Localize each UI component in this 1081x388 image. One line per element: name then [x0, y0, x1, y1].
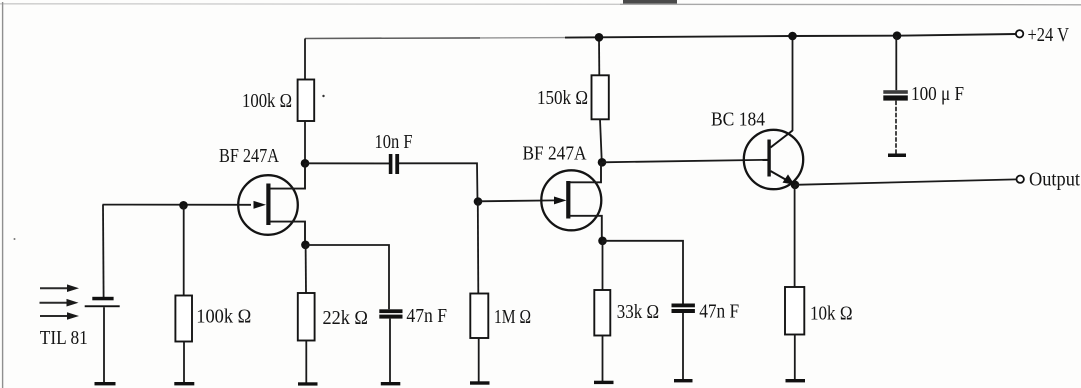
wire gate node down to R2: [183, 205, 185, 295]
svg-text:33k Ω: 33k Ω: [617, 301, 659, 323]
node rail/100uF junction dot: [893, 31, 902, 40]
border frame left line: [2, 2, 4, 388]
speck mark: [322, 95, 324, 97]
wire gate1 from photodiode to gate: [103, 204, 252, 206]
capacitor 47n F (stage 1 bypass): [379, 309, 402, 318]
node emitter junction dot: [791, 181, 800, 190]
node rail/collector junction dot: [788, 32, 797, 41]
label 10n F: [375, 131, 413, 153]
wire 150k bottom to drain2 node: [600, 119, 602, 162]
wire emitter down to 10k: [794, 185, 796, 287]
node drain2 junction dot: [598, 158, 607, 167]
svg-text:1M Ω: 1M Ω: [494, 306, 531, 328]
wire 33k bottom to bar: [602, 336, 604, 382]
svg-text:100k Ω: 100k Ω: [242, 90, 292, 112]
light arrow 3: [40, 312, 79, 320]
svg-text:TIL 81: TIL 81: [40, 327, 88, 349]
wire emitter to output terminal: [795, 179, 1016, 184]
resistor R1 100k (drain load, stage 1): [298, 80, 315, 122]
terminal bar below R2: [174, 382, 194, 385]
speck mark left: [14, 238, 16, 240]
label 150k Ω: [537, 87, 588, 109]
svg-text:47n F: 47n F: [406, 305, 447, 327]
label 100k Ω (R1): [242, 90, 292, 112]
terminal bar below TIL 81: [95, 382, 116, 385]
wire rail to R1 top: [304, 39, 306, 80]
resistor 1M (gate 2 bias): [470, 294, 488, 339]
wire rail to 150k top: [598, 37, 600, 75]
wire 10k bottom to bar: [794, 335, 796, 380]
wire rail to 100uF: [895, 36, 897, 90]
label 47n F (stage 1): [406, 305, 447, 327]
capacitor 10n F coupling: [389, 154, 399, 174]
wire source node to 47n cap: [305, 245, 389, 309]
resistor R2 100k (gate 1 bias): [175, 296, 192, 342]
svg-text:BF 247A: BF 247A: [523, 143, 587, 165]
wire cap to gate2 column: [399, 163, 478, 201]
node rail/150k junction dot: [595, 33, 604, 42]
node drain1 junction dot: [301, 159, 310, 168]
svg-text:10n F: 10n F: [375, 131, 413, 153]
wire 1M bottom to bar: [478, 338, 480, 382]
resistor 150k (drain load, stage 2): [592, 75, 609, 119]
label 47n F (stage 2): [699, 301, 739, 323]
wire 47n#2 bottom to bar: [682, 313, 684, 380]
resistor 10k (emitter load): [785, 287, 804, 335]
label 33k Ω: [617, 301, 659, 323]
resistor 33k (source 2): [594, 290, 610, 336]
label TIL 81: [40, 327, 88, 349]
label BC 184: [711, 109, 765, 131]
svg-text:Output: Output: [1029, 169, 1080, 191]
svg-text:47n F: 47n F: [699, 301, 739, 323]
label +24 V: [1028, 24, 1070, 46]
wire source2 node to 47n #2: [603, 241, 684, 304]
JFET Q1 BF 247A stage 1: [238, 163, 305, 244]
node gate1 bias junction dot: [179, 201, 188, 210]
terminal bar below 1M: [470, 381, 490, 384]
light arrow 2: [40, 299, 79, 307]
label 10k Ω: [810, 303, 853, 325]
JFET Q2 BF 247A stage 2: [541, 162, 602, 241]
wire +24V supply rail: [305, 34, 1016, 39]
svg-text:BC 184: BC 184: [711, 109, 765, 131]
label BF 247A (Q1): [219, 145, 279, 167]
wire collector to rail: [792, 36, 794, 131]
capacitor 100 uF electrolytic: [883, 90, 908, 100]
photodiode TIL 81: [85, 297, 120, 307]
wire 100uF bottom lead: [895, 101, 897, 154]
capacitor 47n F (stage 2 bypass): [672, 304, 695, 314]
svg-text:100 μ F: 100 μ F: [911, 83, 964, 105]
label 1M Ω: [494, 306, 531, 328]
svg-text:100k Ω: 100k Ω: [196, 306, 251, 328]
terminal bar below 100uF: [888, 154, 906, 158]
label Output: [1029, 169, 1080, 191]
transistor Q3 BC 184: [744, 130, 803, 189]
wire photodiode bottom lead: [103, 307, 105, 382]
svg-text:BF 247A: BF 247A: [219, 145, 279, 167]
svg-text:150k Ω: 150k Ω: [537, 87, 588, 109]
page-edge smudge: [623, 0, 677, 4]
terminal bar below 10k: [786, 379, 806, 382]
label BF 247A (Q2): [523, 143, 587, 165]
label 100k Ω (R2): [196, 306, 251, 328]
node source2 junction dot: [598, 237, 607, 246]
wire gate2 node to JFET2 gate: [478, 199, 556, 202]
wire gate2 column down to 1M: [477, 202, 480, 294]
wire drain node to coupling cap: [305, 162, 389, 164]
terminal Output (open circle): [1017, 176, 1024, 183]
node source1 junction dot: [301, 241, 310, 250]
svg-text:22k Ω: 22k Ω: [323, 307, 369, 329]
resistor 22k (source 1): [298, 293, 315, 341]
wire photodiode top lead: [102, 205, 105, 297]
terminal bar below 22k: [298, 382, 318, 385]
wire R1 bottom to drain node: [304, 121, 306, 163]
terminal bar below 47n (stage 1): [381, 382, 401, 385]
wire source2 node down to 33k: [602, 241, 604, 290]
wire 47n bottom to bar: [389, 319, 391, 383]
wire R2 bottom to bar: [183, 342, 185, 383]
terminal bar below 47n (stage 2): [674, 379, 693, 382]
terminal +24 V (open circle): [1016, 30, 1023, 37]
label 22k Ω: [323, 307, 369, 329]
wire source node down to 22k: [305, 245, 307, 293]
node gate2 junction dot: [474, 197, 483, 206]
terminal bar below 33k: [594, 381, 614, 384]
light arrow 1: [40, 284, 79, 292]
wire drain2 node to BC184 base: [602, 160, 768, 163]
svg-text:10k Ω: 10k Ω: [810, 303, 853, 325]
svg-text:+24 V: +24 V: [1028, 24, 1070, 46]
border frame top line: [0, 4, 1081, 5]
label 100 μ F: [911, 83, 964, 105]
wire 22k bottom to bar: [305, 341, 307, 383]
